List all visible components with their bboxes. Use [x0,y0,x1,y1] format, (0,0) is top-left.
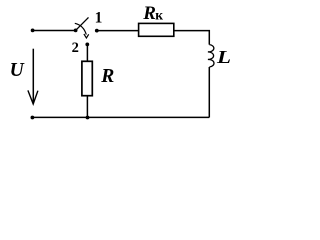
switch blade [76,17,89,30]
wire: Rk to top right corner and down [174,31,210,45]
node: left top terminal [31,29,35,33]
resistor R [82,61,92,95]
svg-text:2: 2 [72,40,79,56]
switch motion arc [75,23,87,34]
svg-text:Rк: Rк [142,3,163,24]
wire: top left horizontal [33,30,76,32]
wire: contact 1 to Rk [97,30,139,32]
voltage source U arrow shaft [32,49,34,104]
inductor L [208,45,214,67]
node: switch contact 1 [95,29,99,33]
voltage source U arrowhead [28,90,38,104]
wire: bottom horizontal [32,116,209,118]
wire: R down to bottom wire [86,96,88,118]
wire: right vertical lower [208,67,210,117]
node: left bottom terminal [31,116,35,120]
svg-text:1: 1 [95,10,103,27]
node: junction of R with bottom wire [86,116,90,120]
svg-text:U: U [10,60,25,81]
resistor Rk [139,23,174,36]
svg-text:L: L [216,47,231,67]
svg-text:R: R [100,66,114,87]
switch pole node [74,29,78,33]
switch motion arrowhead [84,34,89,38]
node: switch contact 2 [85,43,89,47]
wire: contact 2 down to R [86,44,88,61]
